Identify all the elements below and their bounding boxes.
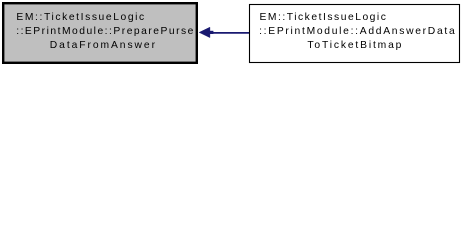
svg-text:ToTicketBitmap: ToTicketBitmap <box>307 40 401 51</box>
node AddAnswerDataToTicketBitmap (white) <box>250 5 460 63</box>
svg-text:EM::TicketIssueLogic: EM::TicketIssueLogic <box>260 12 386 23</box>
node PreparePurseDataFromAnswer (current, grey) <box>3 3 197 63</box>
edge arrow (callee -> caller, midnightblue) <box>199 27 249 37</box>
wire shaft <box>212 32 250 34</box>
arrowhead stub <box>210 31 214 34</box>
svg-text:EM::TicketIssueLogic: EM::TicketIssueLogic <box>16 12 144 23</box>
arrowhead <box>199 27 210 37</box>
svg-text:::EPrintModule::AddAnswerData: ::EPrintModule::AddAnswerData <box>259 26 455 37</box>
svg-text:::EPrintModule::PreparePurse: ::EPrintModule::PreparePurse <box>16 26 193 37</box>
